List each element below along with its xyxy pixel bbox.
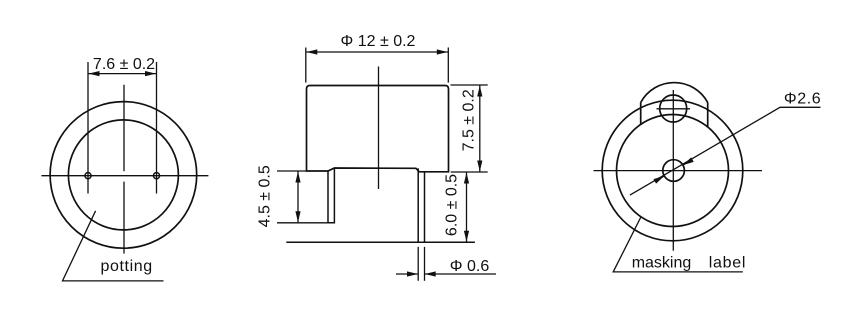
extension line through right pin xyxy=(156,62,158,194)
shared extension line at body bottom right xyxy=(451,171,488,173)
dimension line dia 12 with arrows xyxy=(306,51,448,53)
leader line for dia 2.6 xyxy=(630,107,821,195)
mounting ear arc xyxy=(641,83,708,103)
svg-text:Φ 12 ± 0.2: Φ 12 ± 0.2 xyxy=(341,33,416,50)
extension line top left for 4.5 xyxy=(277,170,307,172)
body outline, side view xyxy=(307,86,449,172)
horizontal centerline, top view xyxy=(594,170,763,172)
svg-text:masking: masking xyxy=(632,254,692,271)
ear notch left vertical xyxy=(640,103,642,125)
svg-text:7.5 ± 0.2: 7.5 ± 0.2 xyxy=(461,89,478,151)
svg-text:6.0 ± 0.5: 6.0 ± 0.5 xyxy=(444,174,461,236)
leader line for potting xyxy=(63,211,164,281)
leader line for masking label xyxy=(613,217,743,272)
extension line below baseline, pin right edge xyxy=(424,247,426,281)
extension line below baseline, pin left edge xyxy=(417,247,419,281)
outer circle, bottom view xyxy=(50,102,197,249)
dimension line 4.5 with arrows xyxy=(297,172,299,223)
inner circle (potting area), bottom view xyxy=(68,120,178,230)
svg-text:7.6 ± 0.2: 7.6 ± 0.2 xyxy=(93,56,155,73)
extension line left for dia 12 xyxy=(305,48,307,83)
extension line top right for 7.5 xyxy=(451,84,488,86)
baseline (seating plane) xyxy=(286,241,475,243)
ear hole horizontal crosshair xyxy=(657,108,691,110)
ear hole circle xyxy=(660,95,687,122)
arrow right for dia 0.6 xyxy=(425,273,496,275)
svg-text:Φ 0.6: Φ 0.6 xyxy=(450,258,490,275)
extension line through left pin xyxy=(87,62,89,194)
outer circle, top view xyxy=(602,100,743,241)
left pin, side view xyxy=(328,168,334,223)
dimension line 6.0 with arrows xyxy=(466,173,468,242)
arrow at lower left of sound hole xyxy=(655,176,665,182)
dimension line 7.6 with arrows xyxy=(89,73,157,75)
svg-text:4.5 ± 0.5: 4.5 ± 0.5 xyxy=(257,165,274,227)
arrow at upper right of sound hole xyxy=(683,160,693,166)
extension line right for dia 12 xyxy=(447,48,449,83)
left pin circle xyxy=(85,173,91,179)
arrow left for dia 0.6 xyxy=(396,273,418,275)
dimension line 7.5 with arrows xyxy=(479,86,481,172)
svg-text:label: label xyxy=(709,254,746,271)
ear notch right vertical xyxy=(707,103,709,127)
svg-text:Φ2.6: Φ2.6 xyxy=(784,91,821,108)
svg-text:potting: potting xyxy=(101,258,153,275)
vertical centerline lower segment, bottom view xyxy=(123,182,125,254)
right pin, side view xyxy=(417,168,419,242)
vertical centerline, top view xyxy=(672,90,674,251)
extension line bottom left for 4.5 xyxy=(277,222,334,224)
horizontal centerline, bottom view xyxy=(41,175,208,177)
inner circle, top view xyxy=(617,115,729,227)
vertical centerline upper segment, bottom view xyxy=(123,85,125,172)
right pin circle xyxy=(153,173,159,179)
vertical centerline, side view xyxy=(378,67,380,190)
sound hole circle dia 2.6 xyxy=(663,160,685,182)
